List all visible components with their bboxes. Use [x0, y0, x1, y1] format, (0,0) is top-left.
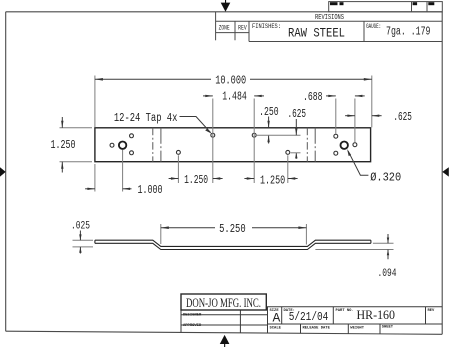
svg-text:1.000: 1.000	[138, 184, 163, 197]
svg-text:.688: .688	[303, 91, 323, 104]
bend line left A	[152, 128, 154, 162]
dim .625 right	[345, 115, 355, 117]
dim .688	[336, 99, 355, 143]
svg-text:7ga. .179: 7ga. .179	[386, 26, 431, 39]
dim 10.000 extension lines	[95, 76, 372, 128]
svg-text:12-24 Tap 4x: 12-24 Tap 4x	[114, 112, 178, 125]
dim 1.484 arrows	[203, 95, 213, 97]
svg-text:SCALE: SCALE	[270, 326, 282, 330]
hole small mid1 bottom row	[176, 150, 180, 154]
svg-text:.094: .094	[378, 268, 397, 280]
hole small right-se	[334, 151, 338, 155]
title block grid	[181, 307, 442, 334]
svg-text:1.250: 1.250	[260, 175, 285, 188]
dim 1.250 #2 bottom	[287, 155, 289, 183]
dim .250	[268, 117, 270, 128]
svg-text:REV: REV	[238, 25, 247, 32]
hole small right-east	[353, 143, 357, 147]
centering arrow right	[442, 167, 449, 176]
svg-text:APPROVED: APPROVED	[183, 324, 202, 328]
hole small mid2 top row	[252, 133, 256, 137]
centering arrow top	[221, 0, 231, 12]
hole big right	[341, 142, 348, 149]
svg-text:REV: REV	[428, 309, 436, 313]
leader 12-24 tap	[180, 117, 211, 133]
svg-text:.625: .625	[287, 108, 306, 121]
dim 10.000	[95, 78, 372, 80]
hole small tap top row	[211, 133, 215, 137]
svg-text:.250: .250	[259, 106, 279, 119]
svg-text:PART NO.: PART NO.	[336, 309, 354, 313]
hole small left-west	[110, 143, 114, 147]
svg-text:HR-160: HR-160	[357, 307, 396, 322]
dim 1.250 #1 bottom	[177, 155, 179, 183]
svg-text:DESIGNER: DESIGNER	[183, 313, 202, 317]
svg-text:RAW STEEL: RAW STEEL	[288, 26, 345, 41]
dim .025	[73, 240, 94, 247]
dim 1.484 extension lines (long gray columns)	[213, 99, 254, 184]
svg-text:Ø.320: Ø.320	[370, 171, 401, 184]
ext line from top-row hole	[257, 134, 301, 136]
svg-text:1.250: 1.250	[184, 174, 208, 187]
dim 1.000	[95, 150, 123, 192]
title block tiny labels	[183, 309, 435, 330]
centering arrow left	[0, 167, 6, 176]
top margin strip boxes	[329, 2, 443, 12]
bend line left B	[160, 128, 162, 162]
svg-text:REVISIONS: REVISIONS	[315, 14, 344, 22]
svg-text:1.484: 1.484	[222, 91, 247, 104]
svg-text:5.250: 5.250	[219, 223, 246, 236]
svg-text:A: A	[272, 310, 280, 325]
svg-text:RELEASE DATE: RELEASE DATE	[303, 326, 331, 330]
bend line right B	[314, 128, 316, 162]
hole small mid3 bottom row	[286, 150, 290, 154]
svg-text:10.000: 10.000	[215, 74, 246, 87]
dim 1.250 height left	[60, 128, 93, 162]
svg-text:WEIGHT: WEIGHT	[350, 326, 364, 330]
hole small right-ne	[334, 134, 338, 138]
hole small left-ne	[130, 134, 134, 138]
hole small left-se	[130, 151, 134, 155]
svg-text:GAUGE:: GAUGE:	[366, 23, 381, 30]
dim 5.250	[161, 224, 307, 245]
svg-text:DON-JO MFG. INC.: DON-JO MFG. INC.	[186, 296, 261, 310]
company name box	[181, 294, 266, 310]
dim .625 (hole rows)	[295, 119, 297, 135]
part outline (top view)	[95, 128, 371, 162]
svg-text:5/21/04: 5/21/04	[289, 310, 329, 324]
centering arrow bottom	[220, 335, 230, 347]
svg-text:.025: .025	[71, 221, 90, 233]
svg-text:FINISHES:: FINISHES:	[252, 23, 281, 30]
top strip tiny text marks	[330, 2, 434, 5]
svg-text:SHEET: SHEET	[382, 326, 394, 330]
leader dia .320	[348, 151, 368, 175]
dim .094	[315, 243, 393, 249]
revisions block grid	[216, 12, 443, 42]
bend line right A	[306, 128, 308, 162]
side view strip outline	[95, 240, 371, 249]
hole big left	[119, 142, 126, 149]
svg-text:.625: .625	[393, 111, 412, 124]
svg-text:ZONE: ZONE	[219, 25, 230, 32]
svg-text:1.250: 1.250	[51, 139, 76, 152]
